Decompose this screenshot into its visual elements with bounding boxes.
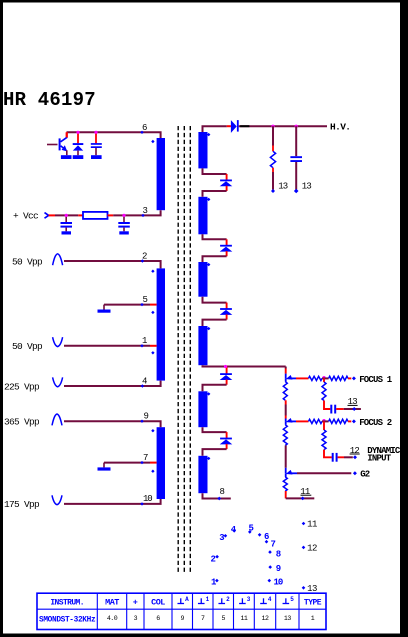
svg-text:COL: COL bbox=[151, 598, 165, 608]
svg-text:11: 11 bbox=[307, 520, 317, 530]
svg-text:5: 5 bbox=[143, 295, 148, 305]
svg-text:9: 9 bbox=[144, 412, 149, 422]
svg-text:5: 5 bbox=[249, 524, 254, 534]
svg-text:3: 3 bbox=[143, 206, 148, 216]
svg-text:+ Vcc: + Vcc bbox=[13, 211, 39, 222]
svg-text:7: 7 bbox=[201, 615, 205, 622]
svg-text:INPUT: INPUT bbox=[367, 453, 391, 463]
svg-text:8: 8 bbox=[276, 549, 281, 559]
svg-text:12: 12 bbox=[262, 615, 269, 622]
svg-text:3: 3 bbox=[219, 533, 224, 543]
svg-text:175 Vpp: 175 Vpp bbox=[4, 499, 40, 510]
svg-text:50 Vpp: 50 Vpp bbox=[12, 341, 43, 352]
svg-text:2: 2 bbox=[211, 554, 216, 564]
svg-text:1: 1 bbox=[311, 615, 315, 622]
svg-text:10: 10 bbox=[143, 494, 152, 504]
svg-text:225 Vpp: 225 Vpp bbox=[4, 381, 40, 392]
svg-text:13: 13 bbox=[302, 182, 312, 192]
svg-text:2: 2 bbox=[142, 251, 147, 261]
svg-text:+: + bbox=[133, 598, 138, 608]
svg-text:365 Vpp: 365 Vpp bbox=[4, 417, 40, 428]
svg-text:9: 9 bbox=[276, 564, 281, 574]
svg-text:4: 4 bbox=[268, 596, 272, 603]
svg-text:5: 5 bbox=[222, 615, 226, 622]
svg-text:INSTRUM.: INSTRUM. bbox=[50, 599, 84, 608]
svg-text:3: 3 bbox=[134, 615, 138, 622]
svg-text:FOCUS 1: FOCUS 1 bbox=[359, 375, 393, 385]
svg-text:1: 1 bbox=[206, 596, 210, 603]
svg-text:A: A bbox=[185, 596, 189, 603]
svg-text:6: 6 bbox=[156, 615, 160, 622]
svg-text:H.V.: H.V. bbox=[330, 122, 350, 133]
svg-text:4.0: 4.0 bbox=[107, 615, 118, 622]
svg-text:1: 1 bbox=[142, 336, 147, 346]
svg-text:13: 13 bbox=[284, 615, 291, 622]
svg-text:2: 2 bbox=[226, 596, 230, 603]
svg-text:HR 46197: HR 46197 bbox=[3, 89, 96, 111]
svg-text:9: 9 bbox=[181, 615, 185, 622]
svg-text:11: 11 bbox=[240, 615, 247, 622]
svg-text:FOCUS 2: FOCUS 2 bbox=[359, 418, 392, 428]
svg-text:8: 8 bbox=[220, 487, 225, 497]
svg-text:TYPE: TYPE bbox=[304, 599, 322, 608]
svg-text:MAT: MAT bbox=[105, 598, 119, 608]
svg-text:12: 12 bbox=[307, 544, 317, 554]
svg-text:SMONDST-32KHz: SMONDST-32KHz bbox=[39, 617, 96, 625]
svg-text:4: 4 bbox=[142, 376, 147, 386]
svg-text:3: 3 bbox=[247, 596, 251, 603]
svg-text:10: 10 bbox=[274, 577, 283, 587]
svg-text:50 Vpp: 50 Vpp bbox=[12, 256, 43, 267]
svg-text:7: 7 bbox=[271, 539, 276, 549]
svg-text:13: 13 bbox=[278, 182, 288, 192]
svg-text:5: 5 bbox=[290, 596, 294, 603]
svg-text:7: 7 bbox=[143, 453, 148, 463]
svg-text:G2: G2 bbox=[360, 470, 370, 480]
svg-text:6: 6 bbox=[142, 123, 147, 133]
